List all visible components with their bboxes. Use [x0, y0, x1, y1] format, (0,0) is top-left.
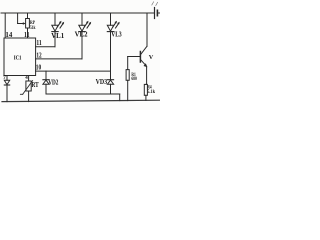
- svg-text:10: 10: [36, 64, 42, 72]
- svg-text:680: 680: [131, 77, 137, 82]
- battery GB: [152, 2, 160, 19]
- svg-text:VL3: VL3: [111, 31, 122, 38]
- svg-text:VL2: VL2: [75, 31, 88, 39]
- svg-text:VD3: VD3: [96, 78, 108, 86]
- svg-text:4: 4: [25, 76, 28, 81]
- diode VD3: [107, 71, 113, 94]
- resistor R4: [144, 84, 147, 100]
- diode VD2: [43, 71, 49, 94]
- wire RP wiper drop from rail: [17, 13, 19, 24]
- wire IC right pin 12 to VL2: [36, 58, 82, 60]
- wire emitter down to R4: [146, 67, 148, 85]
- wire collector to top rail: [146, 13, 148, 46]
- wire RP bottom to IC pin 11 (top): [27, 28, 29, 38]
- IC U1 (IC1) body: [4, 38, 36, 76]
- svg-text:11: 11: [24, 31, 30, 39]
- transistor V: [140, 46, 147, 67]
- svg-text:RT: RT: [32, 81, 39, 89]
- svg-text:14: 14: [5, 31, 12, 39]
- svg-text:7: 7: [3, 75, 6, 81]
- resistor R1: [126, 57, 129, 101]
- wire base of transistor: [128, 56, 140, 58]
- LED VL3: [107, 13, 119, 71]
- thermistor RT: [20, 76, 32, 102]
- svg-text:IC1: IC1: [14, 55, 22, 62]
- wire IC right pin 11 to VL1: [36, 46, 55, 48]
- svg-text:12: 12: [36, 51, 42, 59]
- wire top supply rail: [1, 12, 154, 14]
- svg-text:VD2: VD2: [48, 78, 59, 86]
- LED VL1: [52, 13, 64, 47]
- wire pin 14 drop from rail to IC top: [4, 13, 6, 38]
- svg-text:VL1: VL1: [51, 32, 64, 40]
- wire IC right pin 10 to VD3 column: [36, 70, 111, 72]
- resistor RP body: [26, 19, 30, 29]
- svg-text:51k: 51k: [30, 25, 36, 31]
- diode VD1: [4, 76, 9, 102]
- LED VL2: [79, 13, 91, 59]
- wire mid bottom net VD2/VD3 to ground: [46, 94, 120, 101]
- svg-text:V: V: [149, 54, 154, 61]
- potentiometer RP wiper arrow: [18, 22, 26, 24]
- svg-text:5.1k: 5.1k: [147, 89, 155, 95]
- svg-text:11: 11: [36, 39, 42, 47]
- wire bottom ground rail: [2, 100, 160, 101]
- wire RP top stub: [27, 13, 29, 19]
